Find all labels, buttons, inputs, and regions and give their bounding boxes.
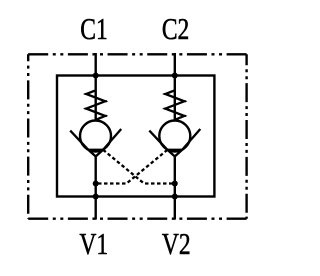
enclosure boundary bottom edge xyxy=(28,217,246,219)
port C2 line xyxy=(174,53,176,121)
svg-text:C1: C1 xyxy=(80,11,107,46)
junction dot pilot on V2 line xyxy=(172,181,178,187)
check valve 2 ball (circle) xyxy=(159,121,190,152)
check valve 1 seat right arm xyxy=(103,129,121,150)
check valve 2 seat triangle xyxy=(167,150,182,157)
junction dot V1 at body bottom xyxy=(93,194,99,200)
check valve 1 seat triangle xyxy=(88,150,103,157)
label C2 xyxy=(162,11,189,46)
port V1 line xyxy=(94,156,96,219)
enclosure boundary (dash-dot-dot) top edge xyxy=(28,53,246,55)
valve body rectangle xyxy=(57,76,214,197)
junction dot C1 at body top xyxy=(93,73,99,79)
junction dot pilot on V1 line xyxy=(93,181,99,187)
spring 2 apex ticks xyxy=(164,94,186,116)
svg-text:C2: C2 xyxy=(162,11,189,46)
spring of check valve 2 xyxy=(165,90,184,120)
port V2 line xyxy=(174,156,176,219)
junction dot V2 at body bottom xyxy=(172,194,178,200)
check valve 1 seat left arm xyxy=(70,131,88,150)
spring 1 apex ticks xyxy=(85,94,107,116)
port C1 line xyxy=(94,53,96,121)
label V2 xyxy=(162,226,191,261)
junction dot C2 at body top xyxy=(172,73,178,79)
pilot line from valve 1 to V2 (dashed) xyxy=(103,150,175,184)
check valve 1 ball (circle) xyxy=(80,121,111,152)
spring of check valve 1 xyxy=(86,90,105,120)
svg-text:V2: V2 xyxy=(162,226,191,261)
enclosure boundary right edge xyxy=(245,54,247,218)
label V1 xyxy=(79,226,108,261)
label C1 xyxy=(80,11,107,46)
check valve 2 seat right arm xyxy=(182,129,200,150)
enclosure boundary left edge xyxy=(27,54,29,218)
pilot line from valve 2 to V1 (dashed) xyxy=(96,150,168,184)
check valve 2 seat left arm xyxy=(149,131,167,150)
svg-text:V1: V1 xyxy=(79,226,108,261)
